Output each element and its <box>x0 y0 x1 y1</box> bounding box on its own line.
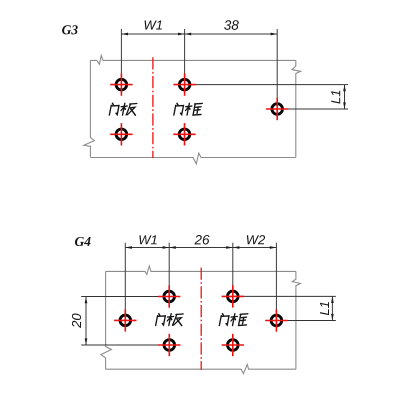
dim text W1 <box>145 21 162 30</box>
dim text W2 <box>247 235 265 244</box>
arrows 26 <box>169 246 176 249</box>
dim text L1 <box>320 302 329 315</box>
hole row line from H6' to right <box>276 320 335 322</box>
centerline (red dash-dot) G4 <box>200 268 202 370</box>
extension line at H1 <box>120 29 122 85</box>
extension line at H3 <box>276 29 278 109</box>
text 门板 (door panel) G4 <box>156 314 185 326</box>
hole H1' <box>114 309 136 331</box>
panel left edge with break <box>84 60 95 157</box>
panel bottom edge with break <box>106 365 296 374</box>
text 门框 (door frame) G3 <box>174 103 203 115</box>
hole H4 <box>110 123 132 145</box>
dim text 26 <box>194 235 209 245</box>
extension line at H2 <box>184 29 186 85</box>
hole row line from H2 to L1 extension <box>185 84 348 86</box>
extension line at H2' <box>168 243 170 297</box>
hole row line from H3' to right <box>233 295 336 297</box>
hole row line from H3 to L1 extension <box>277 108 348 110</box>
dimension W1 / 38 (top, chained) <box>121 29 277 109</box>
dimension line W1+38 <box>121 33 277 35</box>
dimension 20 (left, vertical) <box>85 297 87 345</box>
dimension W1 / 26 / W2 (top, chained) <box>125 243 276 321</box>
hole H5 <box>173 123 195 145</box>
arrows 38 <box>185 33 192 36</box>
label G3 <box>62 25 78 34</box>
dimension L1 (right, vertical) <box>344 85 346 109</box>
text 门框 (door frame) G4 <box>219 314 248 326</box>
panel left edge with break <box>101 271 112 369</box>
panel top edge with break <box>90 55 295 64</box>
dimension line W1+26+W2 <box>125 247 276 249</box>
arrows W2 <box>233 246 240 249</box>
hole H6' <box>265 309 287 331</box>
hole H3' <box>222 285 244 307</box>
panel outline G3 (broken view) <box>84 55 301 163</box>
panel outline G4 (broken view) <box>101 266 301 374</box>
hole H1 <box>110 73 132 95</box>
extension line at H6' <box>275 243 277 321</box>
dim text 20 <box>72 313 81 327</box>
panel top edge with break <box>106 266 296 274</box>
hole H4' <box>158 334 180 356</box>
dim text 38 <box>224 20 239 30</box>
panel right edge with break <box>292 60 301 157</box>
label G4 <box>75 237 91 246</box>
panel right edge with break <box>292 271 300 369</box>
hole H2 <box>173 73 195 95</box>
hole row line from H4' to left <box>81 344 169 346</box>
extension line at H3' <box>232 243 234 297</box>
dim text L1 <box>331 91 340 104</box>
arrows W1 <box>121 33 128 36</box>
hole row line from H2' to left <box>81 296 169 298</box>
extension line at H1' <box>124 243 126 321</box>
panel bottom edge with break <box>90 153 295 164</box>
hole H5' <box>222 334 244 356</box>
arrows W1' <box>125 246 132 249</box>
centerline (red dash-dot) G3 <box>152 57 154 158</box>
dimension L1 (right, vertical) <box>331 296 333 320</box>
hole H2' <box>158 285 180 307</box>
hole H3 <box>266 98 288 120</box>
text 门板 (door panel) G3 <box>109 103 138 115</box>
dim text W1 <box>139 235 156 244</box>
